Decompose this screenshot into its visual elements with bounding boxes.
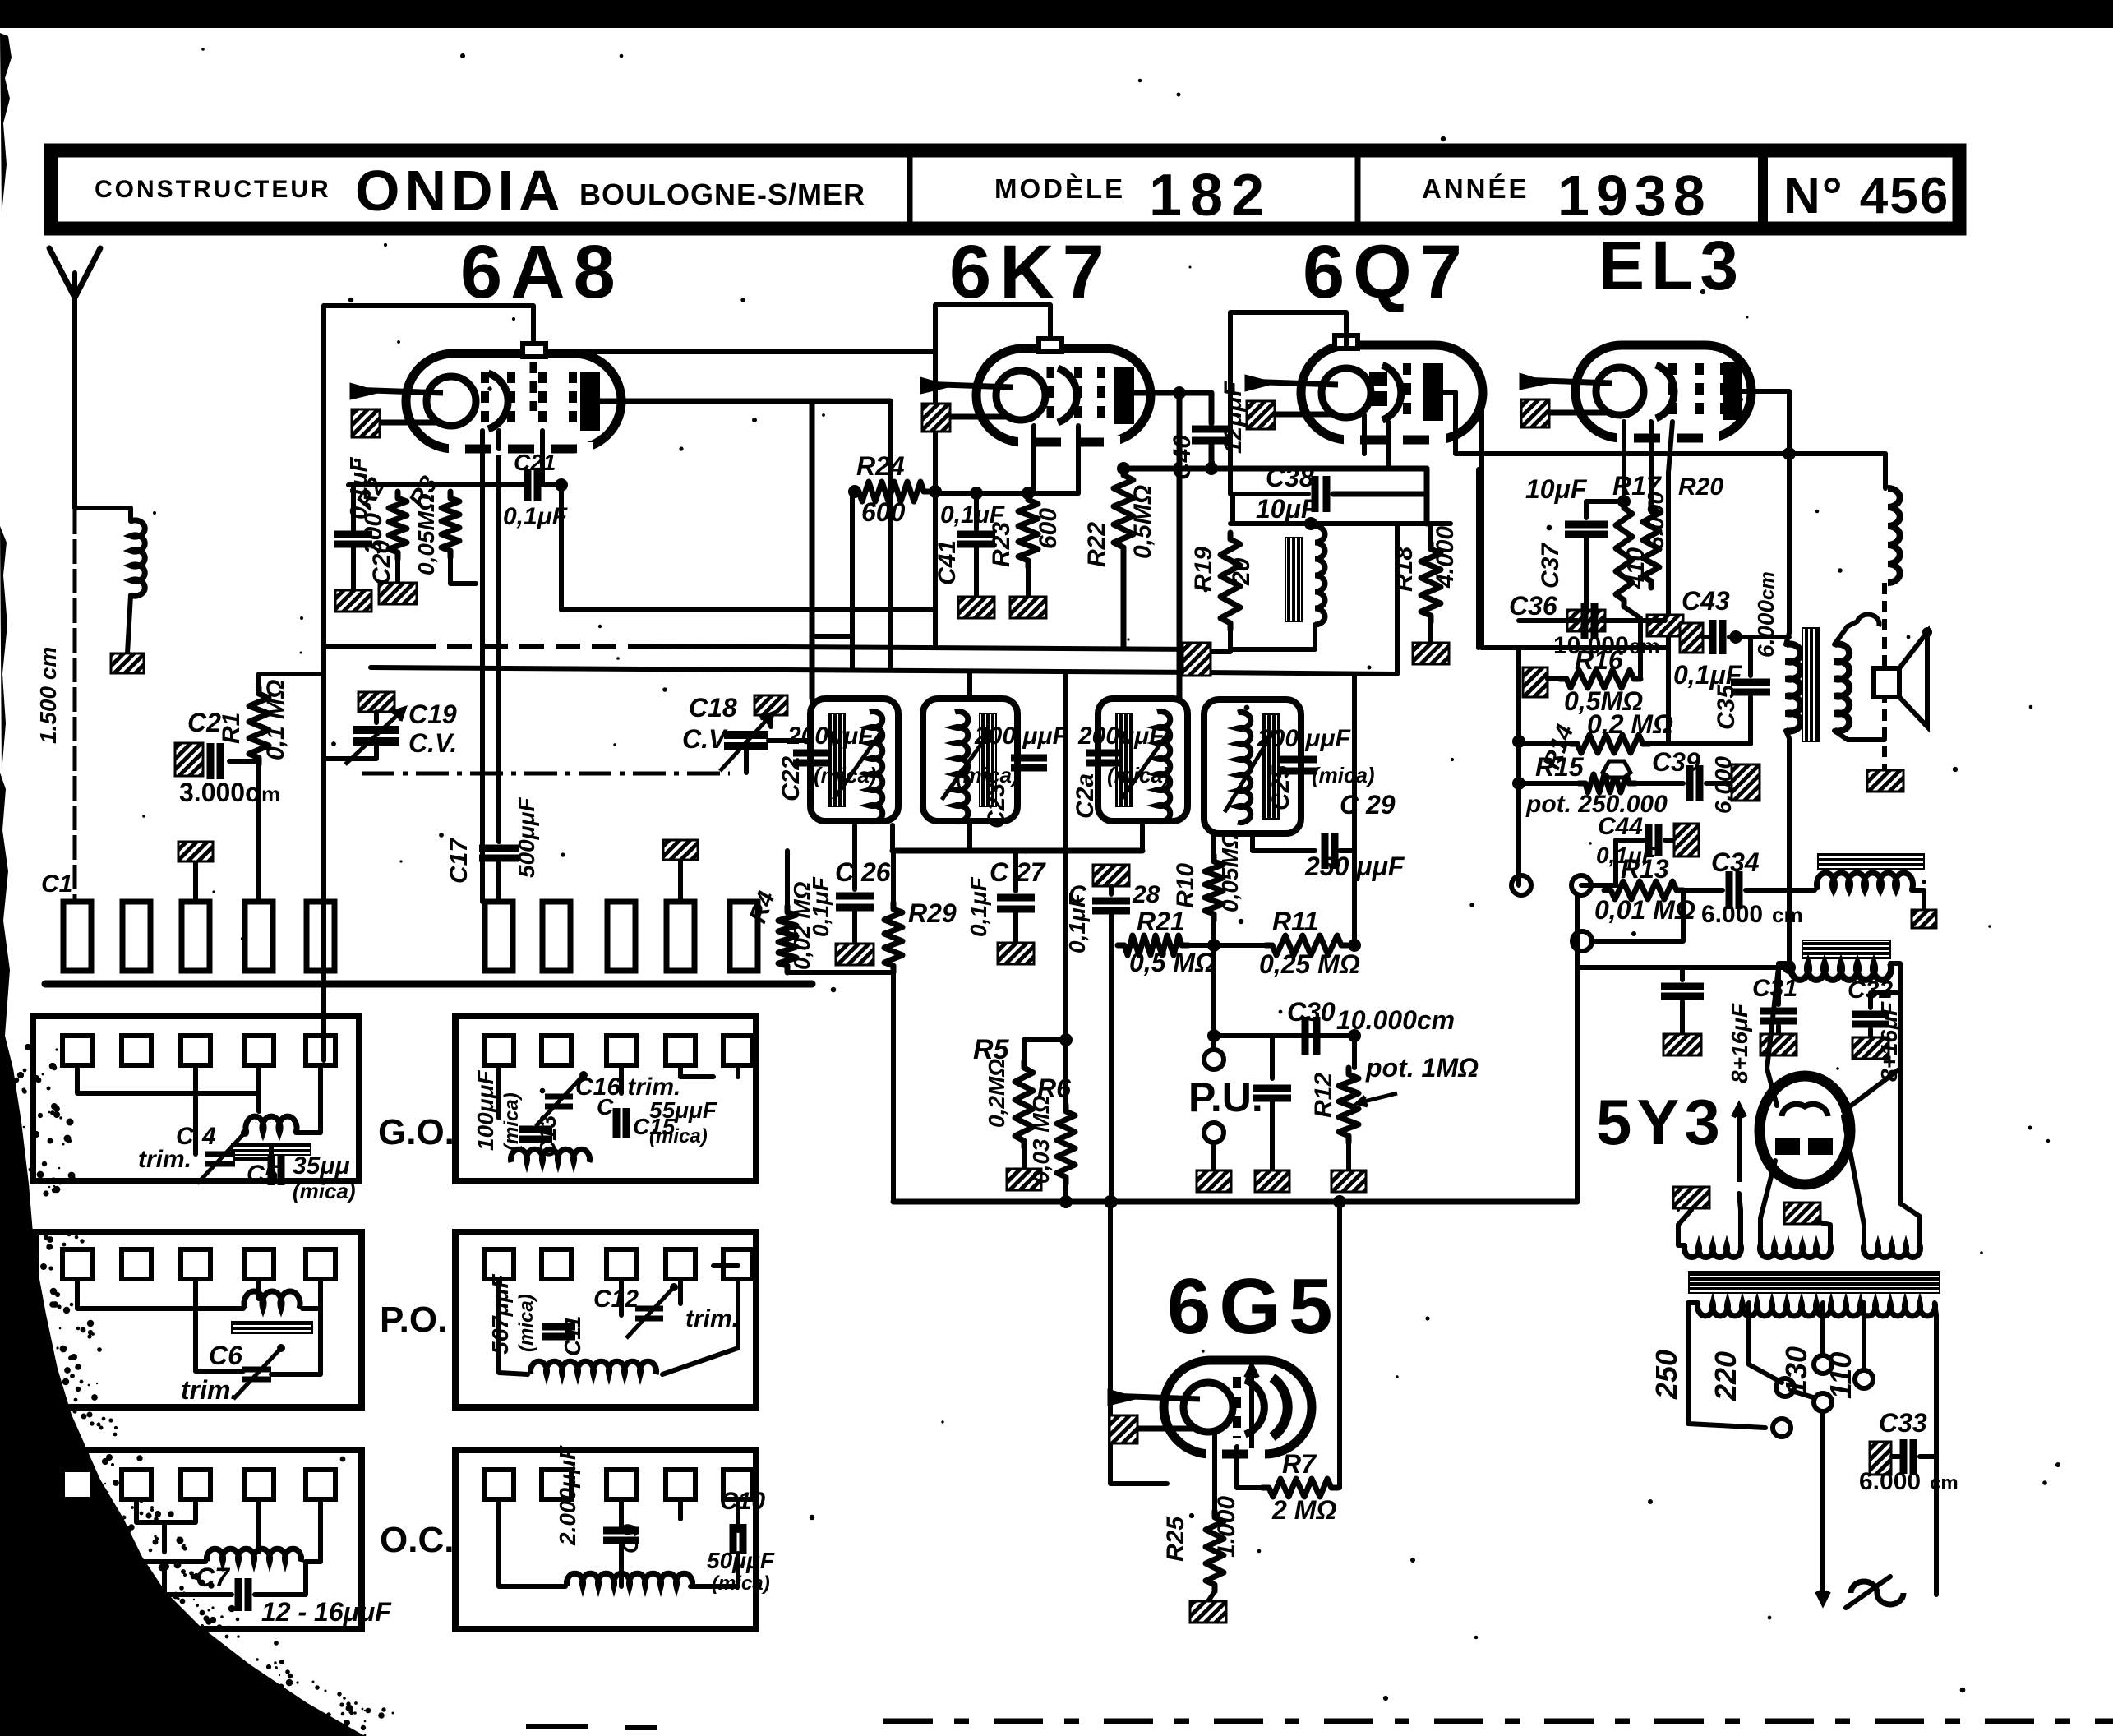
6K7 top cap connector (1039, 339, 1062, 352)
svg-text:(mica): (mica) (515, 1294, 537, 1352)
wire 6A8 cathode bias rail (348, 482, 524, 487)
scan artifact: paper speckles (740, 298, 745, 302)
svg-text:N° 456: N° 456 (1783, 168, 1949, 224)
svg-text:R18: R18 (1391, 547, 1418, 592)
heater riser arrow (5Y3 filament feed) (1737, 1106, 1742, 1182)
svg-text:trim.: trim. (181, 1375, 238, 1405)
ground above C19 (358, 692, 394, 712)
ground below antenna coil (111, 653, 144, 673)
tube 6K7 envelope (976, 349, 1151, 442)
G.O. box wiring (77, 1065, 259, 1093)
switch contact S1-4 (245, 902, 273, 971)
svg-text:600: 600 (861, 497, 906, 527)
O.C. box wiring (77, 1499, 205, 1562)
svg-text:R12: R12 (1310, 1073, 1337, 1118)
svg-text:R25: R25 (1162, 1516, 1189, 1562)
G.O. trimmer C4 (193, 1093, 198, 1154)
scan artifact: top black bar (0, 0, 2113, 28)
svg-text:6.000: 6.000 (1859, 1468, 1921, 1495)
svg-text:ONDIA: ONDIA (355, 159, 565, 223)
svg-text:pot. 1MΩ: pot. 1MΩ (1365, 1053, 1479, 1083)
tube 5Y3 envelope (rectifier) (1760, 1076, 1850, 1184)
capacitor C32 8-16μF (1871, 970, 1900, 1008)
svg-text:P.O.: P.O. (380, 1300, 447, 1340)
capacitor C38 10μF (1233, 492, 1308, 496)
switch contact S2-5 (730, 902, 758, 971)
svg-text:6.000: 6.000 (1701, 901, 1763, 928)
svg-text:100μμF: 100μμF (473, 1070, 498, 1151)
svg-text:C.V.: C.V. (408, 728, 457, 758)
wire secondary left end (1688, 1303, 1765, 1428)
IF transformer 1 secondary box (923, 699, 1017, 821)
wire osc feedback rail (1230, 494, 1235, 524)
wire bus up to B+ rail (1577, 965, 1682, 970)
svg-text:C37: C37 (1537, 542, 1564, 589)
mains sine symbol (1851, 1581, 1903, 1604)
output transformer (1786, 644, 1801, 732)
capacitor C21 0,1μF (osc grid) (524, 469, 532, 501)
EL3 anode (1723, 362, 1742, 420)
svg-text:R23: R23 (988, 522, 1015, 567)
svg-text:2.000μμF: 2.000μμF (555, 1445, 580, 1546)
svg-text:C17: C17 (445, 838, 473, 884)
IF transformer 2 primary box (1098, 699, 1188, 821)
wire 6G5 left drop (1110, 1202, 1167, 1484)
svg-text:R22: R22 (1083, 522, 1110, 567)
wire C21 to 6K7 osc line (555, 478, 568, 492)
resistor R11 0,25MΩ (1188, 943, 1266, 948)
variable capacitor C19 C.V. (353, 726, 399, 734)
wire C2-R1 node to contact S1-4 (256, 761, 261, 902)
svg-text:0,25 MΩ: 0,25 MΩ (1259, 949, 1360, 979)
svg-text:1.000: 1.000 (1213, 1496, 1240, 1558)
svg-text:(mica): (mica) (293, 1179, 356, 1203)
G.O. box contacts (62, 1036, 92, 1065)
wire EL3 grid to AF line (1668, 422, 1672, 744)
wire C18 to oscillator grid line (768, 699, 812, 741)
wire 6A8 anode to IF transformer I primary (600, 399, 890, 404)
coil box 2-1 frame (osc G.O.) (455, 1016, 756, 1181)
wire 6A8 grid-cap loop (324, 306, 533, 349)
resistor R20 5.000 (1643, 501, 1659, 588)
svg-text:6A8: 6A8 (460, 230, 624, 314)
capacitor C34 6.000cm (1683, 888, 1723, 893)
variable capacitor C18 C.V. (724, 731, 768, 739)
switch contact S1-2 (122, 902, 150, 971)
ground pad left of 5Y3 (1673, 1187, 1709, 1208)
switch contact S2-3 (607, 902, 635, 971)
svg-text:R7: R7 (1282, 1449, 1317, 1479)
svg-text:500μμF: 500μμF (514, 797, 539, 878)
svg-text:C18: C18 (689, 693, 737, 723)
coil box O.C. frame (35, 1450, 362, 1629)
6G5 grid (1233, 1377, 1241, 1438)
6Q7 top cap connector (1335, 335, 1358, 349)
O.C. box contacts (62, 1470, 92, 1499)
ground pad below 5Y3 (1784, 1203, 1820, 1224)
6A8 grids (481, 372, 489, 431)
svg-text:12 - 16μμF: 12 - 16μμF (261, 1597, 392, 1627)
svg-text:C30: C30 (1287, 997, 1336, 1027)
wire cathode rail 6K7 (935, 491, 1078, 496)
resistor R22 0,5MΩ (1114, 469, 1133, 554)
6A8 top cap connector (523, 344, 546, 357)
wire 6K7 anode to IF transformer 2 primary (1177, 393, 1183, 699)
wire HT bus (upper) (324, 644, 411, 649)
svg-text:C25: C25 (1267, 764, 1294, 810)
svg-text:G.O.: G.O. (378, 1112, 454, 1152)
resistor R13 0,01MΩ (1591, 883, 1604, 888)
wire AVC bus (lower) (371, 526, 1397, 674)
svg-text:C: C (597, 1094, 614, 1120)
wire 6K7 cathode down to R23/C41 (1031, 426, 1036, 493)
box 2-1 contacts (484, 1036, 514, 1065)
svg-text:C7: C7 (196, 1563, 231, 1592)
svg-text:0,2MΩ: 0,2MΩ (984, 1059, 1009, 1128)
resistor R19 20 (1220, 533, 1240, 630)
capacitor C22 200μμF mica (793, 750, 829, 757)
svg-text:cm: cm (1756, 571, 1779, 600)
svg-text:MODÈLE: MODÈLE (994, 173, 1125, 204)
svg-text:R29: R29 (908, 898, 957, 928)
wire R4-R29 bottom rail (787, 970, 893, 975)
svg-text:P.U.: P.U. (1188, 1074, 1263, 1120)
svg-text:8+16μF: 8+16μF (1727, 1003, 1752, 1083)
tube 6A8 envelope (406, 353, 621, 449)
svg-text:C2: C2 (187, 708, 221, 737)
coil box 2-3 frame (osc O.C.) (455, 1450, 756, 1629)
switch contact S1-5 (307, 902, 334, 971)
capacitor C23 200μμF mica (1011, 755, 1047, 762)
svg-text:C33: C33 (1879, 1408, 1927, 1438)
resistor R2 300 (389, 492, 407, 559)
coil box G.O. frame (33, 1016, 359, 1181)
svg-text:trim.: trim. (138, 1146, 191, 1173)
capacitor C39 6.000 (1635, 781, 1683, 786)
wire coil to ground (127, 595, 131, 653)
wire IF1 secondary to 6K7 grid (967, 674, 972, 699)
wire left vertical from R24 to AVC bus (850, 492, 855, 667)
svg-text:2 MΩ: 2 MΩ (1271, 1495, 1336, 1525)
wire IF boxes bottoms to AVC bus (890, 825, 895, 851)
svg-text:1.500 cm: 1.500 cm (35, 647, 61, 744)
svg-text:R1: R1 (218, 713, 245, 744)
svg-text:(mica): (mica) (712, 1572, 770, 1595)
svg-text:C34: C34 (1711, 847, 1760, 877)
coil box 2-2 frame (osc P.O.) (455, 1232, 756, 1407)
G.O. capacitor C5 35μμF mica (269, 1159, 274, 1170)
wire 6A8 oscillator grid lead down (540, 431, 545, 485)
svg-text:trim.: trim. (685, 1305, 739, 1332)
capacitor C35 6.000cm (1748, 637, 1753, 676)
switch contact S1-3 (182, 902, 210, 971)
svg-text:20: 20 (1228, 557, 1255, 586)
wire top interconnect 6A8 to 6K7 box (535, 349, 935, 354)
ground left of R19 (1183, 643, 1211, 676)
svg-text:C5: C5 (247, 1161, 279, 1188)
resistor R23 600 (1018, 493, 1038, 567)
scan artifact: bottom edge dashed streak (883, 1719, 2113, 1724)
tap wires and selector contacts (1749, 1303, 1782, 1383)
svg-text:C41: C41 (934, 540, 961, 585)
capacitor C43 0,1μF (1680, 623, 1703, 653)
svg-text:C35: C35 (1713, 684, 1740, 730)
5Y3 filament arcs (1782, 1104, 1828, 1116)
svg-text:BOULOGNE-S/MER: BOULOGNE-S/MER (579, 178, 865, 211)
svg-text:0,5MΩ: 0,5MΩ (1129, 485, 1156, 559)
svg-text:C 26: C 26 (835, 857, 891, 887)
resistor R14 0,2MΩ (1519, 741, 1571, 746)
svg-text:C 27: C 27 (990, 857, 1047, 887)
svg-text:50μμF: 50μμF (707, 1548, 775, 1573)
6G5 target anode (1272, 1378, 1288, 1437)
capacitor C44 0,1μF (1616, 838, 1644, 843)
resistor R18 4.000 (1428, 524, 1433, 542)
mechanical link dash-dot line (tuning gang) (362, 772, 730, 776)
antenna (49, 248, 100, 298)
svg-text:cm: cm (1629, 634, 1660, 658)
wire 6Q7 anode line to EL3 grid (via C43) (1476, 469, 1481, 648)
wire 6Q7 top cap (1230, 312, 1346, 494)
resistor R17 410 (1616, 501, 1632, 607)
box 2-2 contacts (484, 1249, 514, 1279)
svg-text:0,5 MΩ: 0,5 MΩ (1129, 948, 1216, 977)
svg-text:C2a: C2a (1072, 773, 1099, 819)
box 2-1 wiring (496, 1065, 501, 1118)
capacitor C25 200μμF mica (1280, 756, 1317, 764)
svg-text:C10: C10 (720, 1488, 765, 1515)
ground above contact S1-3 (193, 861, 198, 902)
G.O. coil (246, 1116, 297, 1133)
box 2-1 coil (511, 1149, 590, 1162)
resistor R10 0,05MΩ (1211, 833, 1216, 855)
capacitor C28 0,1μF (top grounded) (1093, 865, 1129, 886)
svg-text:200μμF: 200μμF (787, 723, 874, 750)
5Y3 anode plates (1775, 1138, 1800, 1155)
svg-text:0,05MΩ: 0,05MΩ (1217, 830, 1243, 912)
svg-text:5Y3: 5Y3 (1596, 1086, 1725, 1158)
svg-text:6.000: 6.000 (1753, 600, 1779, 658)
potentiometer R12 pot 1MΩ (1339, 1068, 1359, 1143)
svg-text:(mica): (mica) (1312, 763, 1375, 787)
6K7 grids (1047, 367, 1054, 426)
6G5 ray arrow (1249, 1366, 1254, 1448)
svg-text:pot. 250.000: pot. 250.000 (1525, 791, 1668, 818)
tube 6G5 envelope (1164, 1360, 1312, 1454)
6Q7 diode plates (1369, 372, 1387, 386)
resistor R7 2MΩ (1237, 1447, 1262, 1488)
switch contact S1-1 (63, 902, 91, 971)
svg-text:R20: R20 (1678, 473, 1723, 501)
svg-text:CONSTRUCTEUR: CONSTRUCTEUR (95, 176, 331, 203)
resistor R29 (891, 851, 896, 903)
svg-text:C44: C44 (1598, 813, 1643, 840)
wire 6A8 cathode leads down (480, 431, 485, 902)
resistor R4 0,02MΩ (785, 851, 790, 906)
capacitor C2a 200μμF mica (1086, 750, 1123, 757)
switch contact S2-2 (542, 902, 570, 971)
svg-text:R13: R13 (1621, 854, 1669, 884)
svg-text:C6: C6 (209, 1341, 242, 1370)
wire vertical x394 long (321, 674, 326, 1060)
svg-text:C23: C23 (983, 783, 1010, 829)
svg-text:ANNÉE: ANNÉE (1422, 173, 1529, 204)
6Q7 grid (1403, 363, 1411, 422)
wire from 6A8 grid leads to switch group 2 (482, 901, 483, 903)
P.U. terminal 1 (1211, 1036, 1216, 1050)
wire long vertical right (detector line) (1352, 674, 1357, 945)
scan artifact: left edge smudge and bottom-left blob (0, 773, 365, 1736)
svg-text:200 μμF: 200 μμF (974, 723, 1068, 750)
svg-text:567μμF: 567μμF (487, 1274, 513, 1355)
terminal circles (gram input) (1511, 875, 1531, 895)
EL3 grids (1668, 363, 1677, 422)
svg-text:55μμF: 55μμF (649, 1097, 717, 1123)
svg-text:10μF: 10μF (1525, 474, 1588, 504)
potentiometer R15 pot 250.000 (1519, 781, 1579, 786)
svg-text:C32: C32 (1848, 976, 1893, 1004)
wire HT bus right section (1482, 645, 1668, 650)
wire IF2 secondary bottom to C29 (1253, 833, 1315, 851)
6Q7 anode (1423, 363, 1443, 421)
svg-text:0,05MΩ: 0,05MΩ (413, 493, 439, 575)
svg-text:200μμF: 200μμF (1077, 723, 1165, 750)
svg-text:C22: C22 (777, 756, 805, 801)
svg-text:600: 600 (1035, 508, 1062, 549)
svg-text:(mica): (mica) (501, 1092, 523, 1151)
wire B+ into choke (1682, 965, 1789, 970)
tone coil (hatched core) (1818, 854, 1924, 869)
svg-text:C39: C39 (1652, 747, 1700, 777)
svg-text:(mica): (mica) (649, 1125, 708, 1147)
svg-text:C.V.: C.V. (682, 724, 731, 754)
wire 6G5 right drop (1331, 1202, 1340, 1488)
svg-text:182: 182 (1149, 163, 1272, 229)
transformer secondary winding (1698, 1303, 1935, 1316)
wire selector to mains (1820, 1412, 1825, 1562)
6K7 anode (1114, 367, 1134, 424)
svg-text:0,03 MΩ: 0,03 MΩ (1028, 1095, 1054, 1184)
svg-text:C40: C40 (1169, 435, 1196, 480)
tube EL3 envelope (1576, 345, 1751, 438)
transformer core (laminations) (1689, 1272, 1940, 1293)
capacitor C41 0,1μF (974, 493, 979, 529)
capacitor C36 10.000cm (1581, 603, 1589, 639)
ground right of C18 (754, 695, 787, 715)
svg-text:5.000: 5.000 (1643, 492, 1668, 549)
ground below speaker (1867, 770, 1903, 792)
wire field coil to speaker/ground (1882, 583, 1887, 770)
O.C. coil (206, 1549, 301, 1562)
svg-text:(mica): (mica) (1107, 763, 1170, 787)
wire EL3 cathode/screen leads (1622, 422, 1626, 501)
svg-text:C36: C36 (1509, 591, 1557, 621)
wire C31 to 5Y3 cathode (1767, 967, 1779, 1106)
svg-text:R16: R16 (1575, 645, 1623, 675)
svg-text:220: 220 (1709, 1351, 1742, 1401)
svg-text:0,1μF: 0,1μF (503, 503, 568, 530)
resistor R1 0,1 MΩ (249, 687, 269, 764)
svg-text:1938: 1938 (1557, 164, 1712, 228)
oscillator coil (hatched core) (1285, 538, 1302, 621)
resistor R25 1.000 (1206, 1511, 1224, 1591)
ground below R25 (1190, 1601, 1226, 1623)
svg-text:6.000: 6.000 (1710, 756, 1736, 814)
resistor R24 600 (heater dropper) (852, 482, 930, 501)
O.C. capacitor C7 12-16μμF (164, 1562, 232, 1595)
svg-text:0,2 MΩ: 0,2 MΩ (1587, 709, 1673, 739)
6A8 signal grid bar (top cap) (530, 362, 537, 411)
ground below R18 (1413, 643, 1449, 664)
wire 6K7 grid-cap box (935, 305, 1050, 646)
capacitor C27 0,1μF (1013, 851, 1018, 891)
capacitor C2 3.000cm (196, 759, 201, 764)
svg-text:35μμ: 35μμ (293, 1152, 350, 1180)
ground below P.U. (1197, 1170, 1231, 1192)
svg-text:(mica): (mica) (814, 763, 877, 787)
P.O. box contacts (62, 1249, 92, 1279)
capacitor C26 0,1μF (852, 825, 857, 889)
wire to R12 pot (1352, 1036, 1357, 1068)
svg-text:C12: C12 (593, 1286, 639, 1313)
capacitor C31 8-16μF (1776, 967, 1781, 1004)
wire 6G5 cathode to R25 (1212, 1431, 1217, 1511)
resistor R5 0,2MΩ (1063, 674, 1068, 1040)
antenna coupling coil L1 (131, 520, 145, 596)
transformer primary windings (1685, 1245, 1742, 1258)
svg-text:6K7: 6K7 (949, 230, 1113, 314)
wire left rail EL3 area (1516, 648, 1521, 885)
svg-text:R19: R19 (1190, 547, 1217, 592)
speaker (1874, 668, 1899, 697)
resistor R6 0,03MΩ (1059, 1033, 1073, 1046)
svg-text:C38: C38 (1266, 463, 1314, 492)
svg-text:C1: C1 (41, 870, 72, 898)
capacitor C17 500μμF (496, 449, 501, 842)
capacitor C40 12μμF (1192, 426, 1231, 433)
svg-text:3.000c: 3.000c (179, 778, 260, 807)
svg-text:0,01 MΩ: 0,01 MΩ (1594, 895, 1695, 925)
filter choke with core (1802, 940, 1890, 958)
box 2-3 contacts (484, 1470, 514, 1499)
svg-text:4.000: 4.000 (1432, 526, 1459, 589)
wire EL3 anode to output transformer (1742, 391, 1789, 633)
resistor R21 0,5MΩ (1111, 944, 1119, 946)
6A8 anode (580, 372, 600, 431)
P.O. coil (244, 1291, 300, 1309)
svg-text:m: m (261, 782, 280, 806)
box 2-3 wiring (499, 1499, 565, 1586)
svg-text:R10: R10 (1172, 863, 1199, 908)
ground above contact S2-4 (678, 860, 683, 902)
P.O. box wiring (77, 1279, 243, 1309)
svg-text:R21: R21 (1137, 907, 1185, 936)
capacitor C29 250μμF (1322, 833, 1329, 869)
wire 6Q7 anode up right (1443, 392, 1885, 454)
resistor R16 0,5MΩ (1523, 667, 1548, 697)
wire R10 node to C30/P.U. (1214, 1033, 1354, 1038)
svg-text:300: 300 (360, 513, 387, 554)
switch contact S2-1 (485, 902, 513, 971)
svg-text:R15: R15 (1535, 752, 1585, 782)
svg-text:250: 250 (1649, 1350, 1683, 1400)
header: title box frame (51, 150, 1959, 229)
coil box P.O. frame (35, 1232, 362, 1407)
svg-text:4: 4 (201, 1123, 216, 1150)
svg-text:200 μμF: 200 μμF (1257, 725, 1351, 752)
svg-text:C 29: C 29 (1340, 790, 1396, 820)
wire C40 junction rail to C38 (1123, 466, 1427, 472)
